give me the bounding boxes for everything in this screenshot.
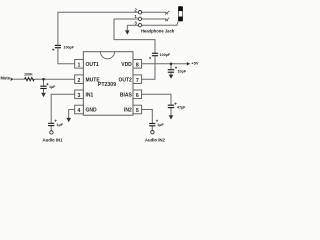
svg-text:6: 6: [136, 93, 139, 99]
svg-text:VDD: VDD: [121, 62, 132, 68]
svg-text:1µF: 1µF: [56, 123, 63, 127]
svg-text:Mute: Mute: [0, 75, 10, 80]
svg-text:Audio IN2: Audio IN2: [145, 138, 166, 143]
svg-text:2: 2: [78, 78, 81, 84]
svg-text:7: 7: [136, 78, 139, 84]
svg-text:10µF: 10µF: [178, 69, 187, 73]
svg-text:1: 1: [78, 62, 81, 68]
svg-text:3: 3: [78, 93, 81, 99]
svg-text:8: 8: [136, 62, 139, 68]
svg-text:OUT1: OUT1: [86, 62, 100, 68]
svg-text:GND: GND: [86, 108, 98, 114]
svg-text:OUT2: OUT2: [118, 77, 132, 83]
svg-text:Audio IN1: Audio IN1: [42, 138, 63, 143]
svg-text:1µF: 1µF: [157, 123, 164, 127]
svg-text:+5V: +5V: [191, 61, 199, 66]
svg-text:1µF: 1µF: [49, 85, 56, 89]
svg-text:4: 4: [78, 108, 81, 114]
svg-text:BIAS: BIAS: [120, 92, 133, 98]
svg-text:PT2309: PT2309: [98, 82, 116, 88]
svg-text:47µF: 47µF: [177, 106, 186, 110]
svg-text:Headphone Jack: Headphone Jack: [141, 29, 175, 34]
svg-text:100µF: 100µF: [160, 53, 171, 57]
svg-text:100K: 100K: [24, 72, 33, 76]
svg-text:IN1: IN1: [86, 92, 94, 98]
svg-text:IN2: IN2: [124, 108, 132, 114]
svg-text:5: 5: [136, 108, 139, 114]
svg-text:100µF: 100µF: [63, 45, 74, 49]
